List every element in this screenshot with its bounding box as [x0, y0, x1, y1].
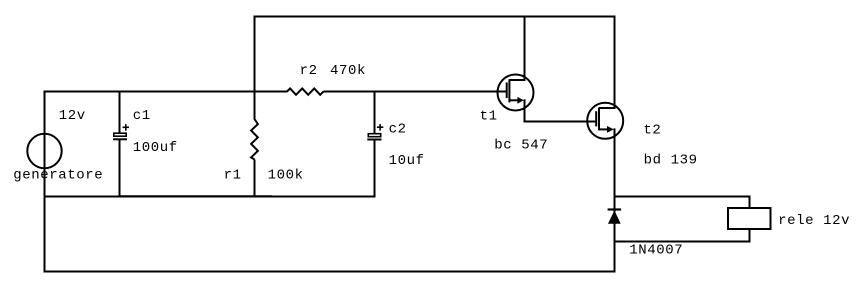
- svg-text:t1: t1: [480, 108, 498, 124]
- svg-text:100k: 100k: [268, 168, 304, 184]
- svg-text:1N4007: 1N4007: [629, 243, 683, 259]
- svg-text:r1: r1: [224, 168, 242, 184]
- wire relay bottom branch: [614, 241, 751, 243]
- capacitor C1: [113, 124, 129, 139]
- svg-text:generatore: generatore: [13, 168, 103, 184]
- wire bottom rail: [44, 271, 616, 273]
- wire r1 vertical bottom: [254, 160, 256, 198]
- wire relay bottom stub: [749, 228, 751, 243]
- svg-text:bc 547: bc 547: [494, 138, 548, 154]
- wire c2 vertical top: [374, 91, 376, 134]
- svg-text:bd 139: bd 139: [644, 153, 698, 169]
- wire t2 emitter vertical: [614, 128, 616, 272]
- wire upper rail right (r2 to t1 gate): [324, 91, 507, 93]
- transistor T2: [587, 103, 623, 139]
- wire r1 vertical top: [254, 16, 256, 120]
- svg-text:470k: 470k: [330, 63, 366, 79]
- wire t1 emitter to t2 gate: [525, 121, 597, 123]
- wire middle rail overlap segment: [119, 195, 272, 197]
- wire c1 vertical top: [119, 91, 121, 134]
- capacitor C2: [367, 124, 383, 139]
- diode D1 1N4007: [608, 210, 622, 224]
- wire c1 vertical bottom: [119, 140, 121, 198]
- wire c2 vertical bottom: [374, 140, 376, 198]
- generator source circle: [27, 134, 61, 168]
- svg-text:100uf: 100uf: [133, 140, 178, 156]
- svg-text:t2: t2: [643, 123, 661, 139]
- wire left vertical: [44, 91, 46, 273]
- resistor R1: [251, 119, 258, 160]
- svg-text:c1: c1: [133, 108, 151, 124]
- resistor R2: [287, 88, 324, 94]
- svg-text:r2: r2: [300, 63, 318, 79]
- transistor T1: [498, 75, 534, 111]
- svg-text:10uf: 10uf: [389, 153, 425, 169]
- wire t2 drain vertical: [614, 16, 616, 110]
- wire middle rail: [44, 196, 376, 198]
- wire t1 emitter vertical: [524, 99, 526, 122]
- wire t1 collector vertical: [524, 16, 526, 82]
- wire relay top branch: [614, 196, 751, 198]
- svg-text:rele 12v: rele 12v: [778, 213, 850, 229]
- wire upper rail left (generator top to r2): [44, 91, 288, 93]
- svg-text:12v: 12v: [59, 108, 86, 124]
- svg-text:c2: c2: [389, 121, 407, 137]
- wire relay top stub: [749, 196, 751, 210]
- relay coil box: [728, 208, 771, 229]
- wire top rail: [254, 16, 616, 18]
